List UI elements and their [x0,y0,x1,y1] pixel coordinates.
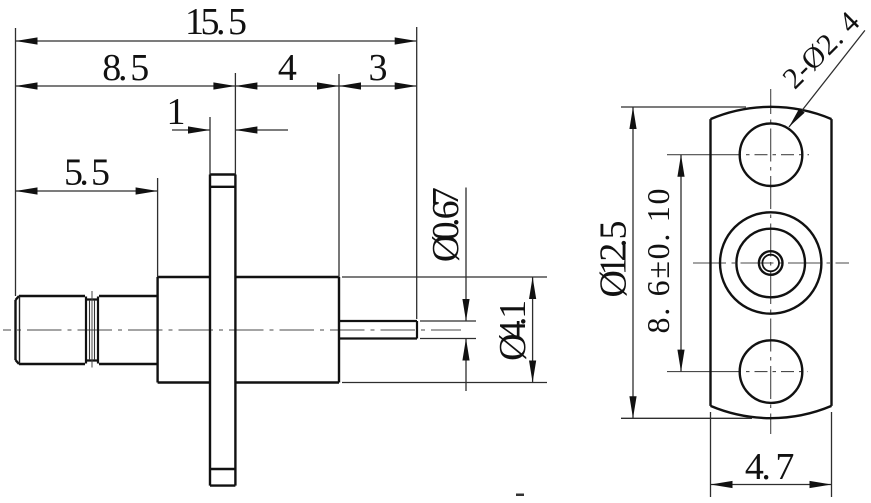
extension lines: body diameter 4.1 [342,277,547,383]
dimension line: 1 flange thickness (outside tails) [172,129,288,131]
arrowheads: dia 0.67 (outside) [462,299,469,321]
extension line: pin tip [416,27,418,319]
svg-text:1: 1 [167,91,186,133]
outline: body barrel left of flange [158,277,210,383]
arrowheads: dim 8.6 [677,155,684,177]
outline: terminal pin [339,321,417,339]
svg-text:4: 4 [278,47,297,89]
extension line: flange top arc apex [621,106,746,108]
arrowheads: dia 4.1 [529,277,536,299]
svg-text:Ø12. 5: Ø12. 5 [593,221,635,298]
svg-text:4. 7: 4. 7 [745,446,795,488]
outline: body barrel right of flange [235,277,339,383]
extension line: flange right face [234,73,236,175]
arrowheads: dia 12.5 [629,107,636,129]
extension line: step face [157,178,159,277]
svg-text:Ø4. 1: Ø4. 1 [492,300,534,361]
arrowhead: leader 2-dia 2.4 [789,108,805,127]
dimension line: dia 0.67 vertical [465,188,467,392]
arrowheads: dim 1 (outside) [188,126,210,133]
centerline: bottom mounting hole axis [667,371,741,373]
arrowheads: dim 3 [339,82,361,89]
svg-text:3: 3 [369,47,388,89]
centerline: connector axis (left view) [3,329,461,331]
dimension line: 15.5 overall length [16,40,417,42]
outline: flange plate with arc ends [711,107,832,418]
svg-text:15. 5: 15. 5 [185,1,247,43]
arrowheads: dim 4 [235,82,257,89]
dimension line: 4.7 horizontal [711,484,832,486]
outline: plug interface cylinder [16,296,158,364]
outline: body step face [156,277,158,383]
dimension line: dia 4.1 vertical [532,277,534,383]
outline: detent groove inner edges [90,300,95,360]
svg-text:8. 5: 8. 5 [102,47,149,89]
leader line: 2-dia 2.4 to top hole [789,30,865,127]
extension line: flange bottom arc apex [621,417,752,419]
hole: top mounting hole dia 2.4 [740,123,803,186]
circle: body boss outer [720,212,821,313]
extension lines: pin diameter 0.67 [420,321,476,339]
arrowheads: dim 15.5 [16,37,38,44]
dimension line: 5.5 plug length [16,190,158,192]
centerline: horizontal axis through center contact [693,262,849,264]
stray mark: small dash at bottom center [516,494,524,497]
dimension line: 8.5 / 4 / 3 chain [16,85,417,87]
circle: center contact [762,255,779,272]
centerline: top mounting hole axis [667,154,741,156]
svg-text:Ø0. 67: Ø0. 67 [425,187,467,262]
extension lines: flange width 4.7 [711,412,832,497]
circle: dielectric [759,251,783,275]
extension line: left end of connector [15,28,17,296]
extension line: flange left face [209,117,211,175]
outline: mounting flange (edge view) [210,175,235,486]
centerline: vertical axis of flange [770,89,772,434]
centerline: groove mid plane [91,291,93,368]
arrowheads: dim 4.7 [711,481,733,488]
extension line: body right face [338,74,340,277]
dimension line: 8.6 +/- 0.10 hole spacing [680,155,682,372]
hole: bottom mounting hole dia 2.4 [740,340,803,403]
outline: detent groove walls [86,297,98,364]
arrowheads: dim 5.5 [16,187,38,194]
arrowheads: dim 8.5 [16,82,38,89]
svg-text:5. 5: 5. 5 [64,152,110,194]
dimension line: dia 12.5 vertical [632,107,634,418]
outline: chamfer edge at plug end [19,297,21,364]
circle: interface bore [736,229,805,298]
